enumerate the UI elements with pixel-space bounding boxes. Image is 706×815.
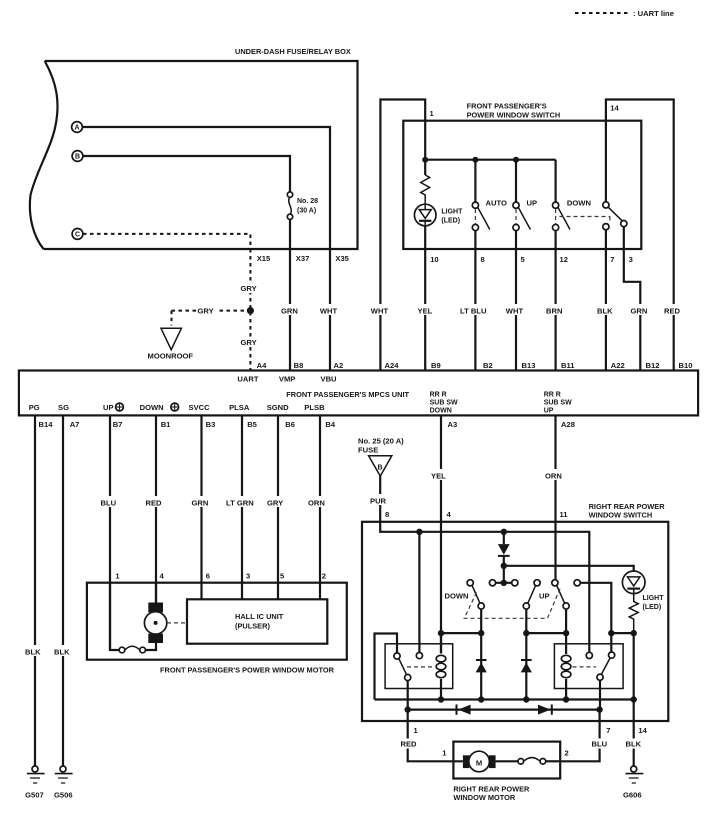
svg-text:GRY: GRY xyxy=(267,499,283,508)
svg-text:B11: B11 xyxy=(561,361,575,370)
svg-text:BRN: BRN xyxy=(546,307,562,316)
svg-text:DOWN: DOWN xyxy=(567,199,591,208)
node UART junction xyxy=(247,307,254,314)
wire pin 3 (to B12) xyxy=(624,227,641,371)
svg-text:BLU: BLU xyxy=(101,499,117,508)
svg-text:A2: A2 xyxy=(334,361,344,370)
wire A3 RR R SUB SW DOWN (YEL) to pin 4 xyxy=(440,415,442,521)
wire moonroof dashed branch xyxy=(172,307,248,326)
dashed link motor to hall IC xyxy=(167,622,187,624)
svg-text:B7: B7 xyxy=(113,420,123,429)
right rear power window switch box xyxy=(362,522,668,721)
ground G606 xyxy=(623,766,643,800)
relay K1 feed from bus1 riser xyxy=(375,634,398,700)
svg-text:2: 2 xyxy=(322,572,326,581)
wire lc1 down xyxy=(480,609,482,699)
wire pin 10 xyxy=(424,226,426,371)
rear switch DOWN contact row xyxy=(467,580,473,586)
node bus A left xyxy=(438,630,444,636)
svg-text:7: 7 xyxy=(606,726,610,735)
blade UP xyxy=(528,586,536,604)
svg-text:X37: X37 xyxy=(296,254,310,263)
svg-text:LIGHT: LIGHT xyxy=(441,209,463,216)
svg-text:B12: B12 xyxy=(646,361,660,370)
svg-text:ORN: ORN xyxy=(545,472,562,481)
svg-text:YEL: YEL xyxy=(431,472,446,481)
switch internal supply bus xyxy=(422,121,555,175)
resistor R2 (LED series) xyxy=(629,594,638,634)
svg-text:UNDER-DASH FUSE/RELAY BOX: UNDER-DASH FUSE/RELAY BOX xyxy=(235,47,351,56)
svg-text:UP: UP xyxy=(539,592,550,601)
svg-text:ORN: ORN xyxy=(308,499,325,508)
svg-text:SGND: SGND xyxy=(267,403,289,412)
svg-text:GRY: GRY xyxy=(241,338,257,347)
svg-text:B1: B1 xyxy=(161,420,171,429)
wire UART dashed X15 to A4 xyxy=(249,249,251,371)
ground G506 xyxy=(54,766,73,800)
svg-text:A22: A22 xyxy=(611,361,625,370)
mechanical linkage dashed xyxy=(464,588,560,619)
relay K2 (up) box xyxy=(554,644,623,689)
wire B (to fuse No.28) xyxy=(83,156,290,192)
wire B1 DOWN+ (RED) to motor pin 4 xyxy=(155,415,157,603)
svg-text:10: 10 xyxy=(430,255,438,264)
svg-text:BLK: BLK xyxy=(597,307,613,316)
svg-text:BLU: BLU xyxy=(592,740,608,749)
svg-text:(30 A): (30 A) xyxy=(297,208,316,215)
svg-text:GRN: GRN xyxy=(631,307,648,316)
relay K2 contacts xyxy=(586,652,592,658)
svg-text:PUR: PUR xyxy=(370,497,387,506)
wire c6 to bus C xyxy=(580,583,611,652)
hall IC unit (pulser) box xyxy=(187,599,327,643)
front passenger's MPCS unit box U1 xyxy=(19,371,698,416)
wire relay K1 output to pin 1 xyxy=(407,681,409,710)
svg-text:RED: RED xyxy=(146,499,163,508)
wire B3 SVCC (GRN) to motor pin 6 xyxy=(200,415,202,599)
svg-text:M: M xyxy=(476,758,482,767)
svg-text:SVCC: SVCC xyxy=(189,403,211,412)
wire PUR fuse to pin 8 xyxy=(379,476,381,522)
LED LIGHT indicator xyxy=(414,204,463,226)
svg-text:WINDOW SWITCH: WINDOW SWITCH xyxy=(589,511,653,520)
svg-text:No. 28: No. 28 xyxy=(297,198,318,205)
svg-text:B4: B4 xyxy=(325,420,335,429)
svg-text:PLSA: PLSA xyxy=(229,403,250,412)
wire B7 UP+ (BLU) to motor pin 1 xyxy=(109,415,111,650)
diode D1 (supply) xyxy=(498,532,510,566)
switch UP xyxy=(513,160,537,231)
node center contact feed xyxy=(501,580,507,586)
bus 2 (motor feed with clamp diodes) xyxy=(405,706,603,712)
diode D3 xyxy=(521,660,532,672)
svg-text:11: 11 xyxy=(560,510,569,519)
relay K1 (down) box xyxy=(385,644,453,689)
svg-text:A28: A28 xyxy=(561,420,575,429)
wire SG A7 to G506 xyxy=(62,415,64,766)
legend UART line xyxy=(575,9,674,18)
rear switch lower contacts xyxy=(478,603,484,609)
label GRY upper xyxy=(240,283,261,293)
bus C segment xyxy=(611,632,633,634)
svg-text:B2: B2 xyxy=(483,361,493,370)
svg-text:SUB SW: SUB SW xyxy=(544,400,572,407)
wire PG B14 to G507 xyxy=(34,415,36,766)
svg-text:BLK: BLK xyxy=(626,740,642,749)
wire pin 1 RED to rear motor xyxy=(408,710,463,762)
svg-text:B13: B13 xyxy=(522,361,536,370)
svg-text:WHT: WHT xyxy=(506,307,524,316)
wire pin 12 xyxy=(554,231,556,371)
terminal C xyxy=(72,229,83,240)
svg-text:(LED): (LED) xyxy=(643,604,662,611)
svg-text:(PULSER): (PULSER) xyxy=(235,622,270,631)
diode D5 (right pointing) xyxy=(538,704,552,714)
wire below fuse to X37 xyxy=(289,220,291,250)
switch DOWN xyxy=(553,160,591,231)
wire LED column to bus1 xyxy=(633,633,635,699)
svg-text:RR R: RR R xyxy=(544,392,561,399)
svg-text:GRY: GRY xyxy=(198,307,214,316)
svg-text:VBU: VBU xyxy=(321,375,338,384)
relay K1 blade xyxy=(399,659,407,675)
svg-text:VMP: VMP xyxy=(279,375,295,384)
relay K1 mechanical dashed xyxy=(407,666,435,668)
wire diode bus to LED xyxy=(504,566,634,572)
wire pin 5 xyxy=(515,231,517,371)
svg-text:A: A xyxy=(74,125,79,132)
svg-text:A3: A3 xyxy=(448,420,458,429)
bus A segment xyxy=(441,632,481,634)
wire A (to X35) xyxy=(82,127,330,249)
svg-text:LT BLU: LT BLU xyxy=(460,307,487,316)
bus B segment xyxy=(526,632,566,634)
label GRY lower xyxy=(240,337,261,347)
svg-text:AUTO: AUTO xyxy=(486,199,507,208)
right rear power window motor box xyxy=(453,742,560,779)
wire lc3 to coil R2 xyxy=(565,609,567,654)
svg-text:A24: A24 xyxy=(385,361,400,370)
svg-text:DOWN: DOWN xyxy=(445,592,469,601)
wire B6 SGND (GRY) to motor pin 5 xyxy=(277,415,279,599)
wire relay K2 output to pin 7 xyxy=(599,680,601,709)
svg-text:DOWN: DOWN xyxy=(430,408,452,415)
diode D4 (left pointing) xyxy=(457,704,471,714)
svg-text:12: 12 xyxy=(560,255,568,264)
wire pin 8 xyxy=(474,231,476,371)
MPCS unit top pin labels xyxy=(257,361,693,370)
svg-text:UP: UP xyxy=(527,199,538,208)
front passenger's power window switch pin 1 feed xyxy=(380,100,425,371)
svg-text:PLSB: PLSB xyxy=(304,403,325,412)
fuse No.25 (20 A) symbol B xyxy=(358,437,404,477)
wire B5 PLSA (LT GRN) to motor pin 3 xyxy=(241,415,243,599)
svg-text:14: 14 xyxy=(638,726,647,735)
svg-text:X35: X35 xyxy=(335,254,349,263)
wire pin 4 through box to relay coil xyxy=(440,522,442,653)
svg-text:7: 7 xyxy=(610,255,614,264)
svg-text:B14: B14 xyxy=(39,420,54,429)
switch AUTO xyxy=(472,160,507,231)
terminal B xyxy=(72,151,83,162)
LED2 light xyxy=(622,571,664,611)
svg-text:B6: B6 xyxy=(285,420,295,429)
svg-text:YEL: YEL xyxy=(418,307,433,316)
wire pin 11 to up contact xyxy=(554,522,556,580)
svg-text:WHT: WHT xyxy=(371,307,389,316)
svg-text:RR R: RR R xyxy=(430,392,447,399)
svg-text:PG: PG xyxy=(29,403,40,412)
svg-text:GRN: GRN xyxy=(192,499,209,508)
svg-text:8: 8 xyxy=(481,255,485,264)
wire B4 PLSB (ORN) to motor pin 2 xyxy=(319,415,321,599)
svg-text:LIGHT: LIGHT xyxy=(643,595,665,602)
svg-text:B8: B8 xyxy=(294,361,304,370)
motor brush loop xyxy=(110,583,156,653)
front passenger's power window motor box xyxy=(87,583,347,660)
svg-text:RED: RED xyxy=(664,307,681,316)
moonroof connector triangle xyxy=(148,328,194,360)
wire C dashed UART (to X15) xyxy=(83,234,250,249)
svg-text:HALL IC UNIT: HALL IC UNIT xyxy=(235,612,284,621)
motor M2 xyxy=(463,751,496,772)
svg-text:MOONROOF: MOONROOF xyxy=(148,352,194,361)
switch lock (pin 14 throw) xyxy=(560,121,627,230)
relay K1 contacts xyxy=(394,653,400,659)
wire WHT (X35 to A2) xyxy=(329,249,331,371)
svg-text:FRONT PASSENGER'S POWER WINDOW: FRONT PASSENGER'S POWER WINDOW MOTOR xyxy=(160,666,335,675)
svg-text:X15: X15 xyxy=(257,254,271,263)
svg-text:RED: RED xyxy=(401,740,418,749)
wire lc2 down xyxy=(525,609,527,699)
svg-text:6: 6 xyxy=(206,572,210,581)
svg-text:(LED): (LED) xyxy=(441,218,460,225)
wire pin 14 BLK to G606 xyxy=(633,700,635,767)
blade AUX xyxy=(557,585,565,603)
motor M2 brush loop xyxy=(496,758,561,765)
svg-text:C: C xyxy=(75,232,80,239)
resistor R (LED series) xyxy=(421,175,430,204)
svg-text:B9: B9 xyxy=(431,361,441,370)
front passenger's power window switch pin 14 feed xyxy=(606,100,674,371)
svg-text:G507: G507 xyxy=(25,791,44,800)
ground G507 xyxy=(25,766,44,800)
svg-text:2: 2 xyxy=(565,749,569,758)
motor M1 armature xyxy=(144,583,166,643)
svg-text:G506: G506 xyxy=(54,791,73,800)
wire GRN (X37 to B8) xyxy=(289,249,291,371)
MPCS bottom pin labels xyxy=(39,420,575,429)
bus 1 (motor common) xyxy=(375,696,637,702)
svg-text:14: 14 xyxy=(610,104,619,113)
svg-text:GRY: GRY xyxy=(241,284,257,293)
svg-text:UP: UP xyxy=(544,408,554,415)
MPCS internal labels xyxy=(29,375,572,415)
node diode output xyxy=(501,563,507,569)
blade DOWN xyxy=(472,585,480,603)
svg-text:FRONT PASSENGER'S: FRONT PASSENGER'S xyxy=(467,102,547,111)
svg-text:GRN: GRN xyxy=(281,307,298,316)
terminal A xyxy=(72,122,83,133)
svg-text:A7: A7 xyxy=(70,420,80,429)
svg-text:B: B xyxy=(377,465,382,472)
svg-text:No. 25 (20 A): No. 25 (20 A) xyxy=(358,437,404,446)
svg-text:LT GRN: LT GRN xyxy=(226,499,254,508)
svg-text:8: 8 xyxy=(385,510,389,519)
svg-text:3: 3 xyxy=(629,255,633,264)
svg-text:B5: B5 xyxy=(247,420,257,429)
under-dash fuse/relay box xyxy=(30,61,358,249)
svg-text:: UART line: : UART line xyxy=(633,9,674,18)
svg-text:B: B xyxy=(75,154,80,161)
relay K2 mechanical dashed xyxy=(573,666,597,668)
front passenger's power window switch box xyxy=(403,121,641,249)
wire pin 7 xyxy=(605,230,607,371)
wire diode to center contacts xyxy=(503,566,505,583)
svg-text:UP: UP xyxy=(103,403,114,412)
diode D2 xyxy=(476,660,487,672)
svg-text:WINDOW MOTOR: WINDOW MOTOR xyxy=(453,793,516,802)
wire pin 8 internal top bus xyxy=(380,522,589,653)
svg-text:B10: B10 xyxy=(679,361,693,370)
svg-text:FRONT PASSENGER'S MPCS UNIT: FRONT PASSENGER'S MPCS UNIT xyxy=(286,390,409,399)
wire A28 RR R SUB SW UP (ORN) to pin 11 xyxy=(554,415,556,521)
svg-text:POWER WINDOW SWITCH: POWER WINDOW SWITCH xyxy=(467,111,561,120)
relay K2 blade xyxy=(601,658,610,674)
svg-text:FUSE: FUSE xyxy=(358,446,378,455)
svg-text:G606: G606 xyxy=(623,791,642,800)
svg-text:SUB SW: SUB SW xyxy=(430,400,458,407)
svg-text:SG: SG xyxy=(58,403,69,412)
svg-text:BLK: BLK xyxy=(25,648,41,657)
svg-text:3: 3 xyxy=(246,572,250,581)
svg-text:BLK: BLK xyxy=(54,648,70,657)
relay K2 coil xyxy=(561,655,571,699)
svg-text:A4: A4 xyxy=(257,361,267,370)
svg-text:B3: B3 xyxy=(206,420,216,429)
svg-text:WHT: WHT xyxy=(320,307,338,316)
relay K1 coil xyxy=(436,633,446,699)
svg-text:UART: UART xyxy=(237,375,258,384)
svg-text:DOWN: DOWN xyxy=(140,403,164,412)
fuse No.28 (30 A) xyxy=(287,192,318,220)
wire pin 7 BLU to rear motor xyxy=(560,710,599,762)
